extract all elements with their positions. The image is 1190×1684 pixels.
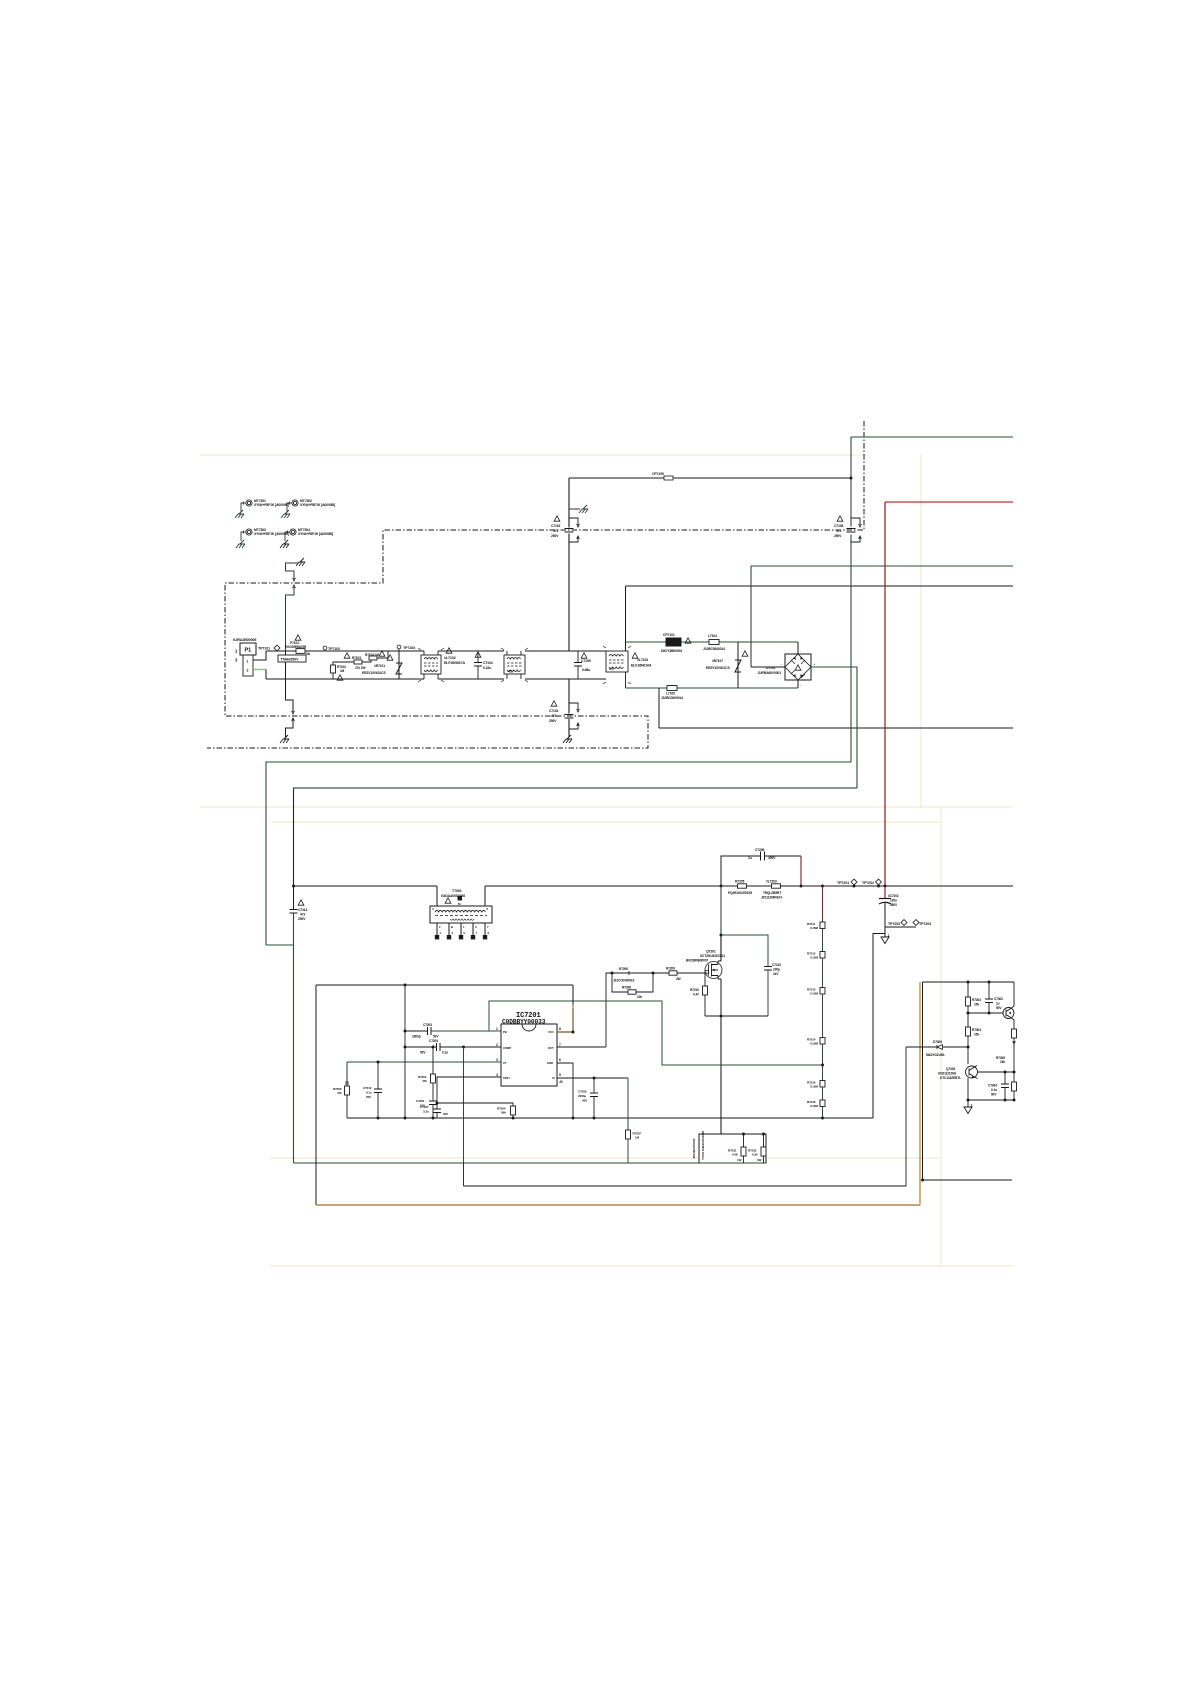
svg-text:R7208: R7208 — [622, 986, 631, 990]
VCC drop to pin8 (orange highlighted) — [572, 985, 574, 1005]
ground — [280, 540, 289, 548]
svg-text:#L7103: #L7103 — [637, 658, 648, 662]
faint zone boundary lines — [200, 455, 1013, 1266]
svg-text:C7204: C7204 — [429, 1039, 438, 1043]
aux output wire to off-page — [923, 1179, 1013, 1181]
chassis feed-through wire (top) — [286, 563, 299, 651]
svg-text:47k: 47k — [422, 1079, 427, 1083]
svg-text:#R7101: #R7101 — [374, 664, 385, 668]
IC7201 pin names — [503, 1030, 555, 1080]
svg-text:CP7105: CP7105 — [652, 472, 664, 476]
label T7001 — [441, 889, 465, 906]
pin6 GND stub — [557, 1063, 573, 1118]
svg-text:XYN4+F8FJK [A0000B]: XYN4+F8FJK [A0000B] — [300, 503, 335, 507]
varistor #R7101 — [362, 651, 402, 679]
wire — [822, 994, 824, 1038]
svg-text:TP7102: TP7102 — [328, 647, 340, 651]
label Q7303 — [938, 1067, 961, 1080]
pin2 feedback green drop x=463.5 — [463, 1047, 465, 1163]
svg-text:2200p: 2200p — [578, 1094, 586, 1098]
svg-text:2: 2 — [247, 669, 249, 673]
svg-text:K2RA2B00005: K2RA2B00005 — [233, 638, 256, 642]
VCC riser (orange) right — [919, 982, 921, 1205]
varistor #R7107 — [706, 642, 748, 688]
svg-text:250V: 250V — [551, 534, 559, 538]
svg-text:8: 8 — [559, 1027, 561, 1031]
pin2 wire + capacitor C7204 — [405, 1039, 501, 1055]
wire branch bottom to off-page y=728 — [659, 688, 1013, 728]
wire bridge + output (green) — [811, 667, 857, 788]
svg-text:C7304: C7304 — [988, 1084, 997, 1088]
wire to GND1 net — [873, 927, 885, 1118]
svg-text:0.15M: 0.15M — [810, 956, 818, 960]
wire bridge top pin — [797, 642, 799, 654]
MOSFET drain net vertical — [720, 886, 722, 935]
svg-text:SCT2H12NZGC11: SCT2H12NZGC11 — [700, 954, 725, 958]
svg-text:VCC: VCC — [548, 1030, 554, 1034]
jumper CP7105 — [652, 472, 673, 480]
divider chain x=823: red feed — [822, 886, 824, 922]
VCC return (orange) bottom wire — [316, 1204, 920, 1206]
inductor #L7203 on +B rail — [761, 880, 782, 900]
pin4 wire + C7207 — [420, 1077, 501, 1118]
power symbol GND1 arrow — [881, 934, 890, 944]
test point TP7103 — [397, 645, 401, 649]
svg-text:TP7201: TP7201 — [837, 881, 849, 885]
svg-text:47k: 47k — [337, 1091, 342, 1095]
capacitor C7212 — [363, 1061, 382, 1120]
gate resistor R7209 — [653, 967, 705, 982]
svg-text:450V: 450V — [890, 903, 898, 907]
node VSEN junction — [821, 1064, 824, 1067]
svg-text:0.15M: 0.15M — [810, 926, 818, 930]
VSEN green net from pin1 to divider — [489, 1001, 823, 1065]
secondary +B rail y=886 — [294, 885, 1014, 887]
svg-text:PQ4R10XJ000X5: PQ4R10XJ000X5 — [728, 891, 752, 895]
svg-text:CT: CT — [503, 1061, 507, 1065]
wire top AC to bridge (green net) — [626, 641, 799, 643]
wire branch to off-page (black, exits right y=586) — [625, 586, 627, 651]
AC line L top wire — [266, 650, 601, 652]
svg-text:J0JCC0000019: J0JCC0000019 — [613, 979, 634, 983]
label L7103 — [631, 653, 652, 668]
power symbol GND1 arrow (aux) — [964, 1104, 973, 1114]
svg-text:ERZV10V621CS: ERZV10V621CS — [706, 666, 730, 670]
svg-text:250V: 250V — [834, 534, 842, 538]
svg-text:56k: 56k — [501, 1111, 506, 1115]
IC7201 pin numbers — [496, 1027, 563, 1084]
resistor R7213 — [807, 988, 825, 996]
GND drop x=405 — [404, 985, 406, 1118]
svg-text:7: 7 — [559, 1043, 561, 1047]
svg-text:15k: 15k — [974, 1003, 979, 1007]
snubber capacitor C7210 — [721, 935, 781, 1016]
svg-text:1M: 1M — [340, 669, 345, 673]
svg-text:0.48: 0.48 — [732, 1153, 738, 1157]
label Q7201 — [686, 950, 725, 963]
svg-text:TP7103: TP7103 — [403, 646, 415, 650]
resistor R7304 — [966, 1013, 982, 1064]
svg-text:120u: 120u — [890, 899, 897, 903]
resistor R7203 — [333, 1062, 350, 1118]
svg-text:1: 1 — [496, 1027, 498, 1031]
resistor R7232 — [748, 1133, 766, 1164]
svg-text:1u: 1u — [748, 856, 752, 860]
svg-text:R7206: R7206 — [619, 967, 628, 971]
svg-text:1W: 1W — [757, 1158, 762, 1162]
svg-text:C7302: C7302 — [994, 997, 1003, 1001]
wire chassis green off-page y=437 — [851, 436, 1013, 438]
feedback wire y=1186 — [464, 1047, 907, 1186]
pin3 wire (CT) green — [347, 1061, 501, 1063]
svg-text:TP7101: TP7101 — [258, 647, 270, 651]
svg-text:OUT: OUT — [548, 1046, 554, 1050]
mounting screw MT7301 — [241, 499, 289, 512]
wire gate net to IC pin7 — [557, 973, 612, 1047]
line filter choke L7103 — [501, 648, 528, 682]
resistor R7103 — [344, 653, 371, 670]
node +B left junction — [292, 885, 295, 888]
svg-text:400V: 400V — [768, 856, 776, 860]
ground — [280, 735, 289, 743]
svg-text:5: 5 — [559, 1073, 561, 1077]
svg-text:TRQLZB5RT: TRQLZB5RT — [763, 891, 781, 895]
Y-capacitor C7102 top feed-through — [551, 478, 588, 651]
wire top L feed y=478 — [569, 477, 851, 479]
svg-text:C7212: C7212 — [363, 1086, 372, 1090]
svg-text:C7106: C7106 — [834, 524, 843, 528]
svg-text:XYN4+F8FJK [A0000B]: XYN4+F8FJK [A0000B] — [254, 503, 289, 507]
resistor R7212 — [807, 952, 825, 960]
svg-text:C7210: C7210 — [772, 963, 781, 967]
resistor R7204 — [437, 1103, 516, 1120]
svg-text:Q7201: Q7201 — [706, 950, 716, 954]
svg-text:472: 472 — [553, 529, 558, 533]
wire bridge AC input from off-page — [750, 566, 752, 667]
connector P1 K2RA2B00005 — [233, 638, 256, 676]
mounting screw MT7302 — [287, 499, 335, 512]
wire pin2 down to AC line N — [265, 670, 267, 680]
left frame wire VCC loop — [315, 985, 317, 1205]
svg-text:0.1u: 0.1u — [442, 1051, 448, 1055]
svg-text:C7104: C7104 — [483, 661, 493, 665]
svg-text:4: 4 — [496, 1073, 498, 1077]
svg-text:0.22u: 0.22u — [483, 666, 491, 670]
wire — [822, 1087, 824, 1100]
ground — [235, 510, 244, 518]
wire +B red off-page y=502 — [885, 501, 1013, 503]
node +B / red junction — [884, 885, 887, 888]
test point TP7203 — [885, 926, 916, 928]
inductor L7104 — [703, 634, 725, 651]
MOSFET source wire — [720, 979, 722, 1016]
svg-text:B0C8R0B00007: B0C8R0B00007 — [686, 959, 709, 963]
svg-text:5A: 5A — [306, 652, 311, 656]
svg-text:0.15M: 0.15M — [810, 992, 818, 996]
svg-text:MA2YD1100L: MA2YD1100L — [926, 1053, 945, 1057]
VCC top wire y=985 — [316, 984, 573, 986]
earth line vertical through AC wires — [286, 651, 294, 712]
svg-text:C7203: C7203 — [423, 1023, 432, 1027]
svg-text:1W: 1W — [737, 1158, 742, 1162]
gate-source resistor R7210 — [690, 973, 708, 1016]
svg-text:4:1: 4:1 — [508, 670, 513, 674]
wire +B red vertical — [884, 502, 886, 886]
transistor Q7201 (MOSFET) — [705, 961, 722, 979]
Y-capacitor C7103 bottom feed-through — [549, 679, 579, 743]
svg-text:250V: 250V — [549, 719, 557, 723]
svg-text:10k: 10k — [637, 995, 642, 999]
svg-text:27k 2W: 27k 2W — [355, 666, 365, 670]
aux box left edge — [922, 982, 924, 1180]
svg-text:#L7203: #L7203 — [766, 880, 777, 884]
pin1 wire + capacitor C7203 — [405, 1023, 501, 1039]
svg-text:STBY: STBY — [503, 1076, 510, 1080]
AC line N bottom wire — [266, 678, 601, 680]
wire bottom AC to bridge (green net) — [626, 687, 799, 689]
line filter choke L7106 — [601, 642, 631, 688]
svg-text:2W: 2W — [676, 977, 681, 981]
svg-text:B: B — [451, 925, 453, 929]
svg-text:GND: GND — [547, 1061, 553, 1065]
svg-text:R7303: R7303 — [972, 998, 981, 1002]
svg-text:1: 1 — [247, 660, 249, 664]
ground — [236, 540, 245, 548]
wire off-page green y=566 — [751, 565, 1013, 567]
resistor R7208 (bottom of pair) — [612, 973, 653, 999]
svg-text:0.39: 0.39 — [752, 1153, 758, 1157]
svg-text:50V: 50V — [366, 1095, 371, 1099]
wire +B to secondary rail — [294, 788, 858, 886]
svg-text:472: 472 — [551, 714, 556, 718]
svg-text:J0Z11Z0R0104: J0Z11Z0R0104 — [761, 896, 782, 900]
current transformer T7201 box — [699, 1134, 766, 1163]
feed-through arrows (bottom) — [292, 711, 295, 721]
svg-text:TP7203: TP7203 — [888, 922, 900, 926]
current sense drop to T7201 — [720, 1016, 722, 1134]
svg-text:T7001: T7001 — [452, 889, 462, 893]
mounting screw MT7303 — [241, 528, 289, 541]
svg-text:D3FBA60V0001: D3FBA60V0001 — [758, 671, 781, 675]
IC7201 control IC — [501, 1012, 557, 1086]
svg-text:#R7107: #R7107 — [712, 659, 723, 663]
shield enclosure dash-dot boundary — [207, 421, 864, 748]
GND rail y=1118 — [347, 1117, 873, 1119]
svg-text:15k: 15k — [1000, 1060, 1005, 1064]
pin5 wire — [557, 1077, 628, 1079]
svg-text:0.1u: 0.1u — [366, 1091, 372, 1095]
transistor Q7303 — [966, 1066, 978, 1079]
svg-text:R7210: R7210 — [690, 988, 699, 992]
svg-text:100p: 100p — [773, 968, 780, 972]
wire — [822, 1044, 824, 1081]
wire Q7303 to output — [978, 1071, 1015, 1073]
svg-text:DTC143ZEBTL: DTC143ZEBTL — [940, 1076, 961, 1080]
label D7101 — [758, 666, 781, 675]
T7001 pin numbers — [432, 907, 490, 935]
svg-text:C7201: C7201 — [416, 1099, 425, 1103]
resistor R7206 (top of parallel pair) — [611, 967, 655, 983]
svg-text:15k: 15k — [974, 1033, 979, 1037]
svg-text:Q7303: Q7303 — [946, 1067, 955, 1071]
line filter choke L7102 — [418, 648, 444, 682]
transistor Q7302 — [968, 982, 1014, 1029]
capacitor C7302 — [985, 981, 1003, 1014]
svg-text:2: 2 — [496, 1043, 498, 1047]
svg-text:1800p: 1800p — [412, 1035, 421, 1039]
svg-text:J0JBC0000014: J0JBC0000014 — [703, 647, 725, 651]
X-capacitor C7105 — [574, 651, 591, 679]
svg-text:T5AH/250V: T5AH/250V — [281, 657, 300, 661]
svg-text:-: - — [800, 649, 801, 653]
svg-text:T7201 G4EZZ0000028: T7201 G4EZZ0000028 — [701, 1131, 705, 1160]
wire chassis green return y=762 — [266, 762, 851, 945]
bridge rectifier D7101 — [785, 654, 811, 680]
svg-text:3.3u: 3.3u — [423, 1110, 429, 1114]
svg-text:D7306: D7306 — [933, 1040, 942, 1044]
svg-text:#C7202: #C7202 — [888, 894, 899, 898]
svg-text:0.15M: 0.15M — [810, 1104, 818, 1108]
resistor R7211 — [807, 922, 825, 930]
resistor R7214 — [807, 1038, 825, 1046]
svg-text:C7314: C7314 — [298, 908, 307, 912]
resistor R7303 — [966, 981, 982, 1014]
svg-text:0.68u: 0.68u — [582, 668, 590, 672]
test point TP7204 — [913, 920, 919, 926]
svg-text:50V: 50V — [443, 1112, 448, 1116]
svg-text:P1: P1 — [245, 648, 252, 654]
svg-text:472: 472 — [300, 913, 305, 917]
capacitor C7314 (Y bridge pri-sec) — [290, 886, 308, 945]
ground — [296, 558, 305, 566]
wire P1 pin1 to AC line L — [253, 651, 266, 660]
resistor R7102 — [331, 662, 357, 680]
junction top wire / green — [850, 477, 853, 480]
source bottom wire — [705, 1015, 768, 1017]
resistor R7231 — [728, 1133, 746, 1164]
svg-text:1M: 1M — [635, 1136, 640, 1140]
chassis green rail to control gnd — [294, 945, 767, 1163]
svg-text:#L7102: #L7102 — [444, 656, 456, 660]
svg-text:C7103: C7103 — [549, 709, 558, 713]
resistor R7205 on +B rail — [728, 880, 752, 896]
svg-text:R7209: R7209 — [666, 967, 675, 971]
wire — [822, 929, 824, 952]
wire P1 pin2 (light green) — [253, 669, 266, 671]
svg-text:D6CY3B00004: D6CY3B00004 — [661, 649, 682, 653]
svg-text:C7207: C7207 — [420, 1105, 429, 1109]
mounting screw MT7304 — [285, 528, 333, 541]
svg-text:C7102: C7102 — [551, 524, 560, 528]
svg-text:50V: 50V — [582, 1099, 587, 1103]
svg-text:R7103: R7103 — [352, 656, 361, 660]
svg-text:L7104: L7104 — [708, 634, 717, 638]
svg-text:C7208: C7208 — [578, 1090, 587, 1094]
svg-text:0.1u: 0.1u — [991, 1088, 997, 1092]
feed-through arrows — [293, 578, 296, 588]
X-capacitor C7104 — [474, 651, 493, 679]
wire to chassis ground — [286, 718, 294, 737]
wire to gnd rail — [822, 1107, 824, 1119]
svg-text:TP7204: TP7204 — [919, 922, 931, 926]
wire — [822, 958, 824, 988]
svg-text:0.47: 0.47 — [693, 993, 699, 997]
label L7102 — [444, 648, 465, 665]
snubber loop capacitor C7206 — [721, 848, 801, 886]
wire bridge bottom pin — [797, 680, 799, 688]
chassis green net vertical x=851 — [850, 437, 852, 762]
svg-text:250V: 250V — [298, 917, 306, 921]
svg-text:0.15M: 0.15M — [810, 1085, 818, 1089]
svg-text:CP7101: CP7101 — [663, 633, 675, 637]
Q7303 emitter to gnd — [967, 1078, 969, 1107]
svg-text:4:1: 4:1 — [609, 667, 614, 671]
capacitor C7304 — [988, 1072, 1009, 1100]
transformer T7001 — [430, 886, 492, 935]
svg-text:1u: 1u — [996, 1002, 1000, 1006]
relay CP7101 — [661, 633, 691, 653]
svg-text:6: 6 — [559, 1058, 561, 1062]
svg-text:3: 3 — [496, 1058, 498, 1062]
svg-text:XYN4+F8FJK [A0000B]: XYN4+F8FJK [A0000B] — [254, 532, 289, 536]
svg-text:R7205: R7205 — [735, 880, 744, 884]
svg-text:C7105: C7105 — [581, 659, 591, 663]
svg-text:PB: PB — [503, 1030, 507, 1034]
svg-text:XYN4+F8FJK [A0000B]: XYN4+F8FJK [A0000B] — [298, 532, 333, 536]
T7001 pin pads — [435, 935, 487, 939]
svg-text:COMP: COMP — [503, 1046, 511, 1050]
diode D7306 — [906, 1040, 968, 1057]
svg-text:JK0JBC000044: JK0JBC000044 — [692, 1138, 696, 1159]
svg-text:J0JBC0000014: J0JBC0000014 — [661, 696, 683, 700]
svg-text:L7105: L7105 — [666, 692, 675, 696]
svg-text:472: 472 — [836, 529, 841, 533]
svg-text:UN2112100A: UN2112100A — [938, 1072, 957, 1076]
capacitor C7208 — [578, 1077, 598, 1120]
resistor R7216 — [807, 1081, 825, 1089]
svg-text:R7304: R7304 — [972, 1028, 981, 1032]
bulk capacitor #C7202 — [879, 886, 899, 927]
svg-text:TP7202: TP7202 — [862, 881, 874, 885]
inductor L7105 — [661, 686, 683, 701]
svg-text:ELF20N007A: ELF20N007A — [444, 661, 465, 665]
svg-text:0.15M: 0.15M — [810, 1042, 818, 1046]
resistor R7207 on green drop — [626, 1078, 642, 1163]
resistor R7305 — [996, 1029, 1017, 1072]
svg-text:ERZV10V621CS: ERZV10V621CS — [362, 671, 386, 675]
resistor R7218 — [807, 1100, 825, 1108]
resistor R7306 — [1012, 1072, 1017, 1100]
capacitor C7205 — [582, 1089, 584, 1091]
aux gnd wire y=1100 — [968, 1099, 1014, 1101]
ground — [281, 510, 290, 518]
test point TP7102 — [323, 646, 327, 650]
aux supply box: top rail — [923, 981, 1015, 983]
series RC R7201/C7201 — [416, 1046, 437, 1120]
svg-text:C7206: C7206 — [755, 848, 764, 852]
resistor R7104 — [365, 651, 388, 660]
Y-capacitor C7106 feed-through — [834, 516, 861, 542]
svg-text:ELF18N010A: ELF18N010A — [631, 664, 652, 668]
fuse F7101 — [278, 635, 311, 662]
svg-text:J0: J0 — [559, 1080, 563, 1084]
bridge pin marks — [780, 649, 816, 688]
